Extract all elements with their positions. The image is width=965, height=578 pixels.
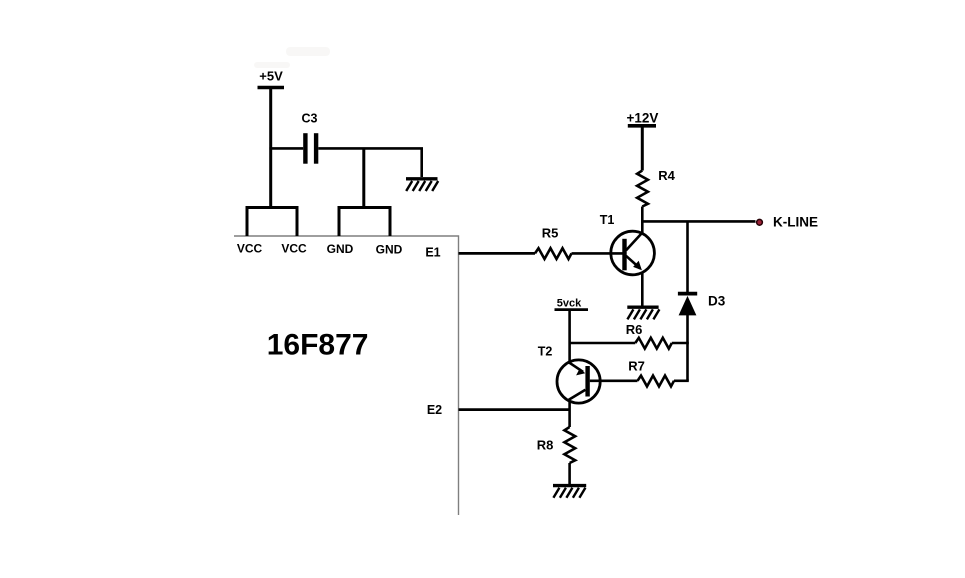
pin label E2	[427, 403, 442, 417]
diode D3	[678, 294, 697, 316]
label D3	[708, 294, 726, 309]
power +12V rail bar	[628, 124, 656, 128]
power +5V rail bar	[258, 86, 285, 90]
svg-text:R6: R6	[626, 322, 643, 337]
chip U1 16F877 outline	[234, 236, 459, 515]
wire K-LINE node down to D3	[686, 221, 689, 293]
wire 5vck down to T2 emitter	[568, 311, 571, 362]
svg-text:C3: C3	[302, 112, 318, 126]
pin label VCC (2)	[281, 241, 307, 255]
capacitor C3	[303, 133, 318, 164]
wire R4 to K-LINE node	[641, 207, 644, 235]
svg-text:VCC: VCC	[237, 241, 263, 255]
svg-text:T1: T1	[600, 213, 615, 227]
wire R7 to node	[674, 379, 689, 382]
wire +5V node to capacitor left plate	[269, 147, 303, 150]
svg-text:GND: GND	[376, 243, 403, 257]
svg-text:GND: GND	[327, 242, 354, 256]
svg-text:R8: R8	[537, 438, 554, 453]
svg-text:E1: E1	[425, 246, 440, 260]
pin label GND (2)	[376, 243, 403, 257]
wire capacitor right plate to ground corner	[318, 148, 421, 177]
label T2	[538, 345, 553, 359]
label R7	[628, 359, 645, 374]
power +12V label	[627, 111, 659, 126]
svg-text:E2: E2	[427, 403, 442, 417]
power +5V label	[259, 69, 283, 84]
ground (T1 emitter)	[627, 307, 659, 319]
label R6	[626, 322, 643, 337]
wire D3 to R6/R7 node	[686, 315, 689, 381]
wire T2 base to R7	[590, 379, 638, 382]
label K-LINE	[773, 215, 818, 230]
svg-text:R5: R5	[542, 226, 559, 241]
node K-LINE dot	[757, 219, 763, 225]
pin label GND (1)	[327, 242, 354, 256]
resistor R4	[637, 171, 648, 207]
pin label E1	[425, 246, 440, 260]
svg-text:VCC: VCC	[281, 241, 307, 255]
pin bridge GND	[339, 208, 390, 237]
wire junction down to GND pin	[362, 148, 365, 208]
svg-text:+5V: +5V	[259, 69, 283, 84]
wire +12V to R4	[641, 127, 644, 171]
svg-text:5vck: 5vck	[557, 297, 582, 309]
chip label 16F877	[267, 329, 369, 362]
label C3	[302, 112, 318, 126]
label R8	[537, 438, 554, 453]
label T1	[600, 213, 615, 227]
svg-text:16F877: 16F877	[267, 329, 369, 362]
svg-text:+12V: +12V	[627, 111, 659, 126]
pin bridge VCC	[247, 208, 297, 237]
power 5vck rail bar	[555, 308, 589, 311]
power 5vck label	[557, 297, 582, 309]
resistor R5	[535, 248, 572, 259]
wire R8 to ground	[568, 463, 571, 484]
label R5	[542, 226, 559, 241]
wire +5V down to VCC pin	[269, 89, 272, 208]
transistor T2	[557, 360, 600, 403]
resistor R8	[564, 427, 575, 463]
svg-text:D3: D3	[708, 294, 726, 309]
wire K-LINE	[642, 220, 755, 223]
wire E2 from chip to T2 collector	[459, 408, 570, 411]
transistor T1	[611, 231, 655, 275]
wire T2 collector down	[568, 401, 571, 427]
wire R6 to node	[672, 342, 689, 345]
svg-text:K-LINE: K-LINE	[773, 215, 818, 230]
pin label VCC (1)	[237, 241, 263, 255]
label R4	[658, 168, 675, 183]
svg-text:R4: R4	[658, 168, 675, 183]
wire E1 from chip to R5	[459, 252, 536, 255]
resistor R7	[638, 376, 675, 387]
wire T1 emitter to ground	[641, 272, 644, 306]
wire R5 to T1 base	[572, 252, 623, 255]
svg-text:T2: T2	[538, 345, 553, 359]
ground (right of C3)	[406, 179, 438, 191]
faint erased-text smudge (artifact)	[254, 47, 330, 68]
ground (R8)	[553, 486, 586, 498]
wire R6 from 5vck node	[570, 342, 636, 345]
resistor R6	[635, 338, 672, 349]
svg-text:R7: R7	[628, 359, 645, 374]
